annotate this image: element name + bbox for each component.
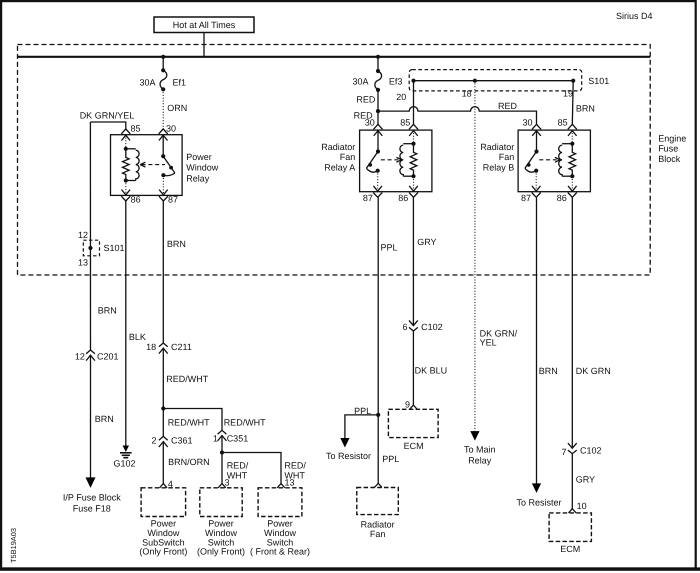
svg-text:12: 12 [78, 230, 88, 240]
wire DK GRN relay B pin 86 to C102 [572, 197, 611, 448]
connector C102 pin 7 [561, 443, 601, 457]
svg-text:Fuse F18: Fuse F18 [73, 503, 111, 513]
wire branch to resistor [345, 415, 378, 439]
wire BLK relay pin 86 to ground [126, 201, 146, 447]
svg-text:30: 30 [522, 118, 532, 128]
power window subswitch box pin 4 [139, 479, 187, 557]
svg-text:Fuse: Fuse [658, 144, 678, 154]
svg-text:BRN: BRN [167, 239, 186, 249]
label PPL at junction [354, 406, 371, 416]
svg-text:S101: S101 [588, 76, 609, 86]
svg-text:BRN: BRN [539, 366, 558, 376]
svg-text:Fan: Fan [499, 152, 515, 162]
svg-text:DK GRN: DK GRN [576, 366, 611, 376]
relay U2 switch [366, 149, 380, 172]
svg-text:85: 85 [558, 118, 568, 128]
label To Resister [516, 498, 561, 508]
svg-text:To Resister: To Resister [516, 498, 561, 508]
svg-text:( Front & Rear): ( Front & Rear) [250, 547, 310, 557]
svg-text:Ef1: Ef1 [173, 78, 187, 88]
svg-text:20: 20 [396, 92, 406, 102]
relay U1 pin 87 [159, 175, 178, 204]
relay U1 pin 86 [121, 181, 140, 205]
wire RED junction to relay A pin 30 [354, 111, 378, 126]
relay U3 pin 85 [558, 118, 577, 144]
wire DK GRN/YEL down to splice S101 [89, 122, 91, 350]
relay U3 linkage [539, 157, 560, 162]
wire bus to fuse Ef1 [162, 57, 164, 71]
label box Hot at All Times [154, 17, 254, 33]
svg-text:Relay B: Relay B [483, 162, 515, 172]
svg-text:Engine: Engine [658, 133, 686, 143]
svg-text:ORN: ORN [167, 103, 187, 113]
svg-text:C211: C211 [171, 342, 192, 352]
relay U1 Power Window Relay box [111, 135, 219, 196]
relay U3 coil [559, 142, 576, 179]
relay U2 pin 85 [400, 118, 418, 144]
connector C211 pin 18 [146, 342, 192, 354]
ground G102 [113, 446, 135, 469]
splice S101 lower dashed box [78, 230, 125, 268]
svg-text:86: 86 [131, 195, 141, 205]
relay U2 pin 30 [365, 118, 383, 152]
svg-text:S101: S101 [104, 243, 125, 253]
label I/P Fuse Block Fuse F18 [63, 492, 121, 513]
svg-text:BLK: BLK [129, 332, 146, 342]
svg-text:Relay: Relay [468, 455, 492, 465]
svg-text:13: 13 [285, 477, 295, 487]
wire GRY to ECM 2 [572, 454, 595, 509]
wire RED/WHT C211 to junction [163, 348, 208, 408]
relay U2 linkage [381, 157, 402, 162]
connector C361 pin 2 [151, 436, 192, 447]
svg-text:G102: G102 [113, 459, 135, 469]
svg-text:ECM: ECM [560, 544, 580, 554]
svg-text:30A: 30A [139, 78, 155, 88]
label DK GRN/YEL [480, 328, 518, 347]
wire ORN fuse Ef1 to relay pin 30 [163, 89, 187, 129]
wire BRN relay B pin 87 down [537, 197, 558, 483]
svg-text:7: 7 [561, 447, 566, 457]
svg-text:Sirius D4: Sirius D4 [616, 11, 653, 21]
arrow to resistor [340, 438, 349, 448]
svg-text:Radiator: Radiator [321, 142, 355, 152]
connector C201 pin 12 [75, 350, 119, 362]
splice S101 dashed box [409, 70, 609, 91]
svg-text:BRN: BRN [98, 305, 117, 315]
label PPL lower [382, 454, 399, 464]
svg-text:RED/: RED/ [284, 460, 306, 470]
connector C102 pin 6 [402, 320, 442, 332]
wire RED/WHT to switch front [222, 453, 249, 484]
relay U3 Radiator Fan Relay B box [480, 130, 590, 192]
svg-text:Radiator: Radiator [361, 520, 395, 530]
svg-text:DK GRN/YEL: DK GRN/YEL [80, 110, 135, 120]
relay U2 pin 87 [363, 171, 382, 204]
svg-text:3: 3 [225, 477, 230, 487]
ECM box 2 pin 10 [549, 501, 591, 554]
svg-text:2: 2 [151, 436, 156, 446]
node junction RED [376, 109, 380, 113]
relay U1 linkage [140, 162, 165, 167]
svg-text:PPL: PPL [381, 242, 398, 252]
svg-text:BRN: BRN [576, 104, 595, 114]
svg-text:10: 10 [577, 501, 587, 511]
pin 19 label [563, 89, 573, 99]
svg-text:C201: C201 [97, 352, 119, 362]
svg-text:Ef3: Ef3 [389, 76, 403, 86]
wire DK BLU to ECM [413, 331, 447, 405]
svg-text:13: 13 [78, 258, 88, 268]
svg-text:WHT: WHT [227, 470, 248, 480]
relay U2 coil [400, 142, 417, 179]
svg-text:19: 19 [563, 89, 573, 99]
relay U3 pin 30 [522, 118, 541, 152]
svg-text:86: 86 [398, 193, 408, 203]
svg-text:85: 85 [400, 118, 410, 128]
svg-text:C351: C351 [227, 434, 249, 444]
svg-text:RED/WHT: RED/WHT [166, 374, 208, 384]
svg-text:30: 30 [166, 124, 176, 134]
label BRN upper left [98, 305, 117, 315]
svg-text:PPL: PPL [382, 454, 399, 464]
svg-text:RED/WHT: RED/WHT [168, 417, 210, 427]
svg-text:To Main: To Main [464, 444, 496, 454]
node junction PPL [376, 413, 380, 417]
arrow to main relay [470, 431, 479, 441]
svg-text:Relay A: Relay A [324, 162, 355, 172]
node bus junction Ef3 [376, 55, 380, 59]
svg-text:Relay: Relay [186, 173, 210, 183]
power bus wire [18, 56, 651, 58]
wire BRN to I/P fuse block [91, 355, 114, 479]
node junction RED/WHT [161, 406, 165, 410]
splice S101 bus wire [411, 79, 575, 83]
relay U3 pin 87 [521, 171, 541, 204]
node junction RED/WHT 2 [220, 450, 224, 454]
svg-text:Hot at All Times: Hot at All Times [173, 20, 236, 30]
label To Resistor [326, 451, 371, 461]
svg-text:18: 18 [462, 89, 472, 99]
wire RED to relay B pin 30 with hops [378, 101, 537, 126]
svg-text:30A: 30A [352, 76, 368, 86]
svg-text:6: 6 [402, 322, 407, 332]
svg-text:Radiator: Radiator [480, 142, 514, 152]
svg-text:86: 86 [557, 193, 567, 203]
wire BRN splice pin 19 to relay B pin 85 [572, 81, 595, 126]
relay U2 Radiator Fan Relay A box [321, 130, 432, 192]
wire BRN relay pin 87 to C211 [163, 201, 186, 343]
svg-text:GRY: GRY [417, 237, 436, 247]
wire splice pin 18 down (DK GRN/YEL) [474, 81, 476, 435]
svg-text:I/P Fuse Block: I/P Fuse Block [63, 492, 121, 502]
svg-text:Block: Block [658, 154, 681, 164]
pin 20 label [396, 92, 406, 102]
svg-text:1: 1 [213, 434, 218, 444]
svg-text:Fan: Fan [370, 529, 386, 539]
svg-text:9: 9 [405, 400, 410, 410]
svg-text:C361: C361 [171, 436, 193, 446]
wire RED fuse Ef3 down [356, 90, 378, 111]
relay U3 switch [525, 149, 539, 172]
svg-text:Window: Window [186, 163, 219, 173]
svg-text:30: 30 [365, 118, 375, 128]
wire branch RED/WHT to switch rear [222, 453, 306, 484]
wire splice pin 20 to relay A pin 85 [413, 81, 415, 126]
svg-text:RED: RED [498, 101, 518, 111]
radiator fan box [357, 483, 399, 539]
svg-text:RED/WHT: RED/WHT [224, 417, 266, 427]
relay U2 pin 86 [398, 176, 418, 203]
svg-text:BRN: BRN [95, 414, 114, 424]
svg-text:85: 85 [131, 124, 141, 134]
svg-text:18: 18 [146, 342, 156, 352]
power window switch front box pin 3 [197, 477, 245, 556]
svg-text:Power: Power [186, 152, 212, 162]
power window switch rear box pin 13 [250, 477, 310, 556]
svg-text:ECM: ECM [404, 441, 424, 451]
svg-text:BRN/ORN: BRN/ORN [168, 457, 210, 467]
engine fuse block dashed box [18, 45, 651, 276]
svg-text:12: 12 [75, 352, 85, 362]
relay U1 coil [123, 147, 140, 183]
node bus junction Ef1 [161, 55, 165, 59]
svg-text:C102: C102 [580, 445, 602, 455]
wire DK GRN/YEL to pin 85 [80, 110, 135, 128]
wire branch to C351 [163, 409, 266, 431]
svg-text:87: 87 [168, 195, 178, 205]
svg-text:RED/: RED/ [227, 460, 249, 470]
relay U1 pin 30 [159, 124, 176, 157]
footer code T5B19A03 [9, 528, 18, 563]
svg-text:(Only Front): (Only Front) [139, 547, 187, 557]
svg-text:Fan: Fan [340, 152, 356, 162]
wire GRY relay A pin 86 to C102 [413, 197, 436, 325]
title Sirius D4 [616, 11, 653, 21]
label Engine Fuse Block [658, 133, 686, 164]
svg-text:GRY: GRY [576, 475, 595, 485]
relay U3 pin 86 [557, 176, 577, 203]
svg-text:87: 87 [521, 193, 531, 203]
wire from Hot at All Times to bus [203, 33, 205, 57]
wire bus to fuse Ef3 [377, 57, 379, 71]
svg-text:87: 87 [363, 193, 373, 203]
wire C351 down to junction [221, 436, 223, 453]
label To Main Relay [464, 444, 496, 465]
svg-text:T5B19A03: T5B19A03 [9, 528, 18, 563]
connector C351 pin 1 [213, 430, 248, 443]
fuse Ef1 30A [139, 68, 186, 91]
wire BRN/ORN C361 to subswitch [163, 442, 209, 484]
wire PPL relay A pin 87 down [378, 197, 397, 483]
svg-text:DK BLU: DK BLU [415, 365, 448, 375]
arrow to I/P fuse block [86, 477, 96, 488]
svg-text:C102: C102 [421, 322, 443, 332]
relay U1 pin 85 [121, 124, 140, 149]
arrow to resister [532, 483, 541, 493]
svg-text:RED: RED [356, 95, 376, 105]
relay U1 switch [161, 154, 175, 177]
wire RED/WHT junction to C361 [163, 409, 210, 437]
ECM box pin 9 [388, 400, 438, 451]
svg-text:(Only Front): (Only Front) [197, 547, 245, 557]
pin 18 label [462, 89, 472, 99]
svg-text:To Resistor: To Resistor [326, 451, 371, 461]
fuse Ef3 30A [352, 69, 402, 92]
svg-text:YEL: YEL [480, 338, 497, 348]
